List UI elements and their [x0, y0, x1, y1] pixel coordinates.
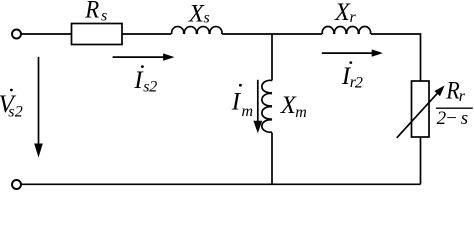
- wire box to bottom: [420, 137, 422, 184]
- arrowhead Is2: [163, 53, 174, 60]
- svg-text:I: I: [231, 88, 242, 115]
- inductor Xr: [322, 27, 370, 34]
- fraction bar: [436, 107, 473, 109]
- current arrow Ir2 line: [322, 52, 372, 54]
- resistor Rs: [72, 24, 123, 45]
- svg-text:s: s: [8, 103, 14, 120]
- terminal top-left: [12, 30, 21, 39]
- arrowhead Im: [253, 121, 262, 133]
- inductor Xs: [172, 27, 222, 34]
- variable resistor diagonal arrow line: [397, 91, 440, 138]
- arrowhead variable resistor: [434, 86, 444, 97]
- terminal bottom-left: [12, 180, 21, 189]
- dot of Im: [239, 84, 242, 87]
- svg-text:r: r: [459, 88, 466, 105]
- svg-text:R: R: [84, 0, 99, 23]
- current arrow Is2 line: [113, 56, 164, 58]
- wire Rs to Xs: [122, 33, 171, 35]
- arrowhead Ir2: [372, 49, 383, 56]
- bottom wire: [21, 183, 420, 185]
- svg-text:m: m: [242, 103, 254, 120]
- wire Xr to corner: [371, 34, 421, 81]
- svg-text:2: 2: [355, 74, 363, 91]
- svg-text:s: s: [204, 9, 210, 26]
- dot of Vs2: [10, 89, 13, 92]
- svg-text:−: −: [445, 108, 458, 129]
- wire top-left: [21, 33, 71, 35]
- svg-text:r: r: [350, 9, 357, 26]
- dot of Is2: [141, 65, 144, 68]
- svg-text:s: s: [101, 7, 107, 24]
- current arrow Im line: [257, 80, 259, 122]
- variable resistor box Rr/(2-s): [412, 81, 430, 137]
- dot of Ir2: [349, 61, 352, 64]
- svg-text:s: s: [461, 108, 468, 129]
- svg-text:m: m: [295, 104, 307, 121]
- voltage arrow Vs2 line: [38, 57, 40, 144]
- svg-text:R: R: [445, 78, 459, 105]
- arrowhead Vs2: [34, 144, 43, 158]
- svg-text:2: 2: [149, 79, 157, 96]
- wire node to Xm: [271, 34, 273, 81]
- wire Xs to Xr (through node): [222, 33, 322, 35]
- svg-text:2: 2: [15, 103, 23, 120]
- inductor Xm: [262, 80, 272, 132]
- wire Xm to bottom: [271, 133, 273, 185]
